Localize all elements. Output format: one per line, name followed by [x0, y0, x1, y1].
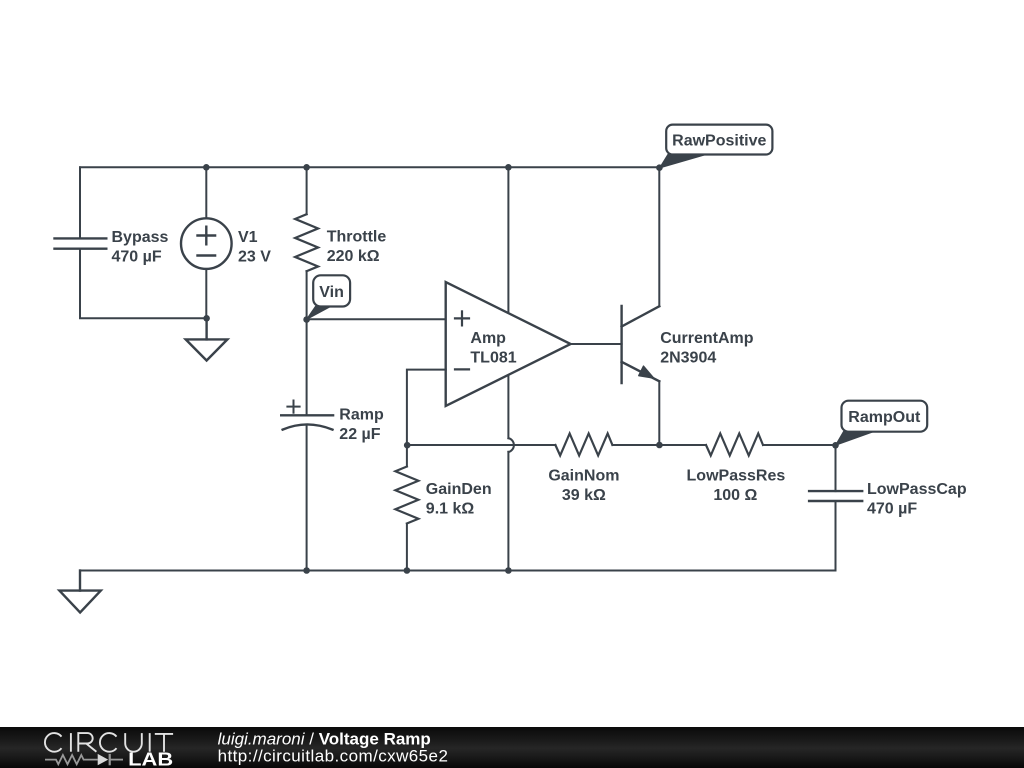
- ground below V1: [186, 318, 228, 360]
- junction top rail V1: [203, 164, 210, 171]
- junction RampOut node: [832, 442, 839, 449]
- svg-text:LowPassRes: LowPassRes: [687, 468, 786, 485]
- label V1: [238, 229, 271, 266]
- svg-text:Ramp: Ramp: [339, 406, 384, 423]
- capacitor LowPassCap: [809, 491, 862, 501]
- resistor Throttle: [295, 167, 318, 319]
- footer bar: [0, 727, 1024, 768]
- svg-text:Throttle: Throttle: [327, 229, 387, 246]
- svg-text:100 Ω: 100 Ω: [713, 487, 757, 504]
- wire LowPassRes to RampOut: [763, 444, 836, 446]
- svg-text:470 µF: 470 µF: [867, 501, 917, 518]
- junction emitter node: [656, 442, 663, 449]
- svg-text:39 kΩ: 39 kΩ: [562, 487, 606, 504]
- wire Vin to op-amp plus input: [307, 318, 446, 320]
- svg-text:LowPassCap: LowPassCap: [867, 481, 967, 498]
- junction V1 bottom: [203, 315, 210, 322]
- wire op-amp output to base: [571, 343, 622, 345]
- wire GainNom to emitter node: [612, 444, 706, 446]
- ground bottom left: [59, 571, 100, 613]
- svg-text:CurrentAmp: CurrentAmp: [660, 330, 754, 347]
- op-amp Amp: [446, 282, 571, 406]
- label GainNom: [548, 468, 619, 505]
- svg-text:RawPositive: RawPositive: [672, 133, 766, 150]
- wire feedback to GainNom left: [407, 444, 556, 446]
- junction bottom rail Ramp: [303, 567, 310, 574]
- logo CIRCUIT letters: [45, 733, 173, 752]
- wire V1 bottom: [205, 269, 207, 318]
- label Ramp: [339, 406, 384, 443]
- svg-text:http://circuitlab.com/cxw65e2: http://circuitlab.com/cxw65e2: [218, 747, 449, 766]
- junction bottom rail long vertical: [505, 567, 512, 574]
- svg-text:GainDen: GainDen: [426, 481, 492, 498]
- svg-text:luigi.maroni / Voltage Ramp: luigi.maroni / Voltage Ramp: [218, 729, 431, 748]
- svg-text:Bypass: Bypass: [112, 229, 169, 246]
- svg-text:9.1 kΩ: 9.1 kΩ: [426, 501, 475, 518]
- label LowPassRes: [687, 468, 786, 505]
- wire Bypass bottom to V1 bottom node: [80, 249, 207, 319]
- resistor GainDen: [395, 445, 418, 571]
- svg-text:TL081: TL081: [470, 349, 516, 366]
- label Bypass value: [112, 229, 169, 266]
- logo resistor diode squiggle: [45, 754, 123, 765]
- svg-text:220 kΩ: 220 kΩ: [327, 248, 380, 265]
- svg-text:Vin: Vin: [319, 284, 344, 301]
- wire V1 top: [205, 167, 207, 218]
- svg-text:RampOut: RampOut: [848, 409, 921, 426]
- junction top rail RawPositive: [656, 164, 663, 171]
- label Throttle: [327, 229, 387, 266]
- svg-text:22 µF: 22 µF: [339, 426, 380, 443]
- node flag RawPositive: [660, 125, 773, 168]
- junction bottom rail GainDen: [404, 567, 411, 574]
- wire RampOut to LowPassCap: [835, 445, 837, 491]
- junction feedback node: [404, 442, 411, 449]
- capacitor Bypass: [55, 238, 107, 248]
- wire bottom rail: [80, 570, 836, 572]
- voltage source V1: [181, 218, 232, 269]
- svg-text:2N3904: 2N3904: [660, 349, 716, 366]
- resistor LowPassRes: [706, 434, 763, 456]
- svg-text:V1: V1: [238, 229, 258, 246]
- capacitor Ramp polarized: [281, 415, 333, 429]
- transistor CurrentAmp: [622, 306, 660, 383]
- label LowPassCap: [867, 481, 967, 518]
- svg-text:23 V: 23 V: [238, 249, 271, 266]
- svg-text:LAB: LAB: [128, 749, 173, 767]
- label GainDen: [426, 481, 492, 518]
- label CurrentAmp: [660, 330, 754, 366]
- svg-text:GainNom: GainNom: [548, 468, 619, 485]
- wire long vertical from rail through op-amp: [508, 167, 514, 570]
- polarity plus Ramp: [287, 401, 299, 413]
- wire left drop to Bypass: [79, 167, 81, 238]
- node flag Vin: [306, 275, 350, 319]
- wire LowPassCap to bottom rail: [835, 501, 837, 571]
- node flag RampOut: [836, 401, 928, 446]
- wire Vin down to Ramp: [306, 320, 308, 416]
- junction top rail Throttle: [303, 164, 310, 171]
- transistor emitter arrow: [639, 366, 654, 378]
- wire op-amp minus input feedback: [407, 370, 446, 445]
- wire Ramp to bottom rail: [306, 425, 308, 571]
- svg-text:Amp: Amp: [470, 330, 506, 347]
- wire emitter down: [658, 381, 660, 445]
- junction top rail long vertical: [505, 164, 512, 171]
- wire top rail: [80, 166, 659, 168]
- svg-text:470 µF: 470 µF: [112, 249, 162, 266]
- junction Vin node: [303, 316, 310, 323]
- wire collector to top rail: [658, 167, 660, 306]
- resistor GainNom: [555, 434, 612, 456]
